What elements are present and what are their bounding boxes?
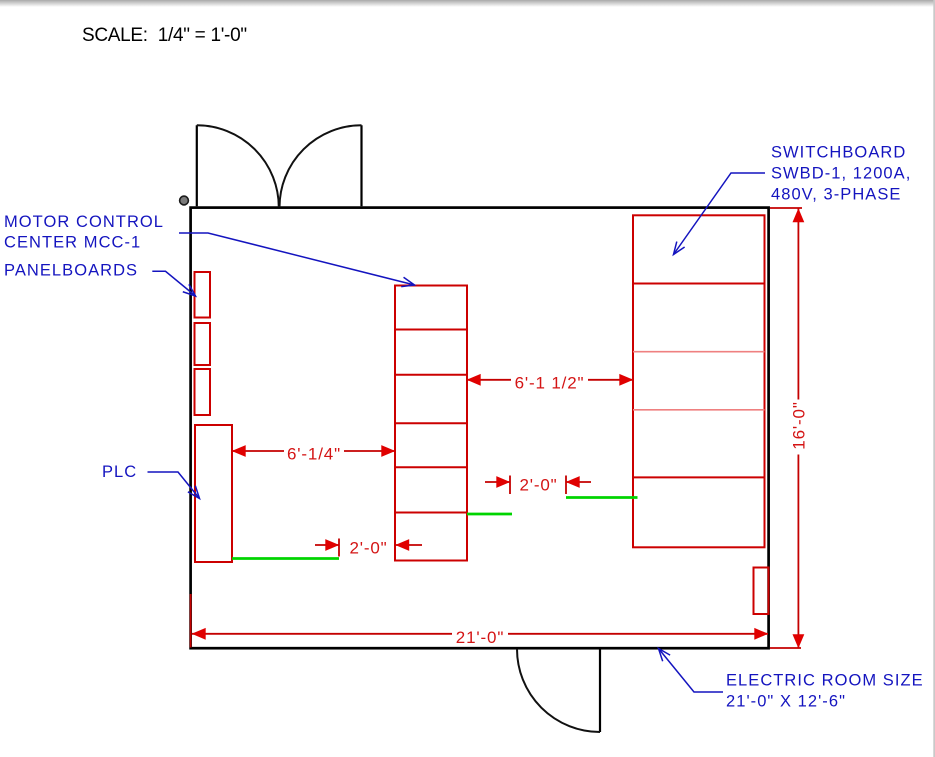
bottom door swing arc	[517, 649, 600, 732]
dim 2'-0" low arrow left	[315, 544, 339, 546]
MCC divider 1	[395, 329, 467, 331]
window chrome right edge	[933, 0, 935, 757]
dim 2'-0" mid arrow left	[485, 481, 510, 483]
panelboard PB2	[195, 323, 211, 365]
svg-text:ELECTRIC ROOM SIZE: ELECTRIC ROOM SIZE	[726, 671, 924, 689]
MCC divider 3	[395, 422, 467, 424]
leader MCC	[179, 233, 415, 285]
leader PANELBOARDS	[152, 271, 195, 296]
clearance line green PLC	[232, 557, 339, 560]
dim 21'-0" line left	[192, 633, 452, 635]
dim 6'-1/4" line left	[232, 450, 284, 452]
leader PLC	[148, 472, 200, 499]
double door left jamb/leaf	[196, 125, 198, 206]
window chrome top gradient	[0, 0, 935, 7]
MCC divider 5	[395, 512, 467, 514]
svg-text:MOTOR CONTROL: MOTOR CONTROL	[4, 213, 164, 231]
svg-text:480V, 3-PHASE: 480V, 3-PHASE	[771, 185, 901, 203]
dim 16'-0" top extension	[770, 207, 802, 209]
svg-text:SCALE: 1/4" = 1'-0": SCALE: 1/4" = 1'-0"	[82, 25, 247, 46]
dim 16'-0" line bottom	[797, 455, 799, 649]
svg-text:SWBD-1, 1200A,: SWBD-1, 1200A,	[771, 164, 911, 182]
dim 2'-0" mid arrow right	[566, 481, 591, 483]
SWBD divider 1	[633, 283, 765, 285]
leader SWITCHBOARD	[674, 173, 766, 255]
switchboard SWBD-1 outline	[633, 215, 765, 547]
double door right jamb/leaf	[360, 125, 362, 206]
svg-text:PANELBOARDS: PANELBOARDS	[4, 262, 138, 280]
dim 16'-0" bottom extension	[770, 647, 801, 649]
dim 2'-0" mid tick left	[509, 476, 511, 495]
svg-text:PLC: PLC	[102, 463, 137, 481]
svg-text:6'-1/4": 6'-1/4"	[287, 445, 341, 464]
dim 6'-1 1/2" line left	[467, 379, 511, 381]
double door left swing arc	[197, 125, 279, 207]
bottom door leaf	[599, 648, 601, 732]
dim 2'-0" low tick	[338, 539, 340, 557]
dim 16'-0" line top	[797, 209, 799, 400]
dim 2'-0" mid tick right	[565, 476, 567, 495]
room walls	[191, 208, 769, 649]
MCC-1 outline	[395, 286, 467, 561]
dim 6'-1/4" line right	[344, 450, 395, 452]
dim 2'-0" low arrow right	[396, 544, 423, 546]
wall box (right wall small equipment)	[754, 568, 769, 615]
PLC cabinet	[195, 425, 232, 562]
dim 21'-0" line right	[508, 633, 768, 635]
svg-text:2'-0": 2'-0"	[349, 539, 387, 558]
MCC divider 2	[395, 374, 467, 376]
clearance line green MCC	[467, 513, 512, 516]
SWBD divider 2	[633, 351, 765, 353]
svg-text:2'-0": 2'-0"	[519, 476, 557, 495]
svg-text:6'-1 1/2": 6'-1 1/2"	[515, 373, 585, 392]
panelboard PB1	[195, 272, 211, 318]
svg-text:21'-0" X 12'-6": 21'-0" X 12'-6"	[726, 692, 846, 710]
svg-text:SWITCHBOARD: SWITCHBOARD	[771, 143, 906, 161]
leader ELECTRIC ROOM	[659, 649, 724, 693]
SWBD divider 4	[633, 476, 765, 478]
SWBD divider 3	[633, 409, 765, 411]
panelboard PB3	[195, 369, 211, 415]
dim 21'-0" extension line	[190, 594, 192, 648]
svg-text:CENTER MCC-1: CENTER MCC-1	[4, 234, 141, 252]
svg-text:16'-0": 16'-0"	[790, 401, 809, 449]
clearance line green SWBD	[566, 496, 638, 499]
svg-text:21'-0": 21'-0"	[456, 628, 504, 647]
double door right swing arc	[280, 125, 362, 207]
MCC divider 4	[395, 466, 467, 468]
dim 6'-1 1/2" line right	[588, 379, 633, 381]
grey door-stop dot	[180, 196, 189, 205]
